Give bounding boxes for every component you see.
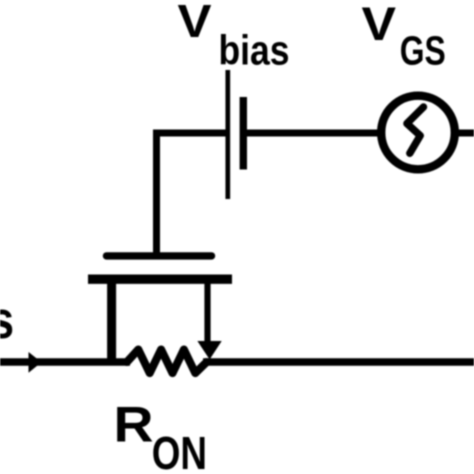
svg-text:bias: bias [219, 26, 290, 73]
svg-text:GS: GS [400, 27, 446, 73]
svg-text:V: V [178, 0, 212, 47]
svg-text:R: R [114, 397, 154, 453]
svg-text:s: s [0, 291, 14, 350]
svg-text:V: V [362, 0, 397, 50]
svg-text:ON: ON [152, 427, 207, 474]
